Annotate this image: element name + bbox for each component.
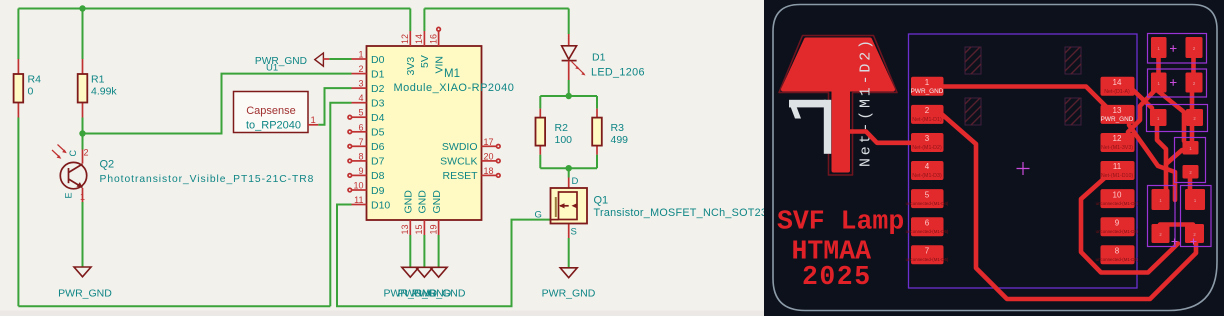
svg-text:8: 8	[358, 151, 363, 161]
svg-text:5: 5	[358, 108, 363, 118]
svg-text:499: 499	[611, 134, 629, 146]
svg-text:D1: D1	[592, 52, 606, 64]
svg-text:10: 10	[353, 181, 363, 191]
trace pad11 hook	[1081, 175, 1178, 273]
svg-text:4.99k: 4.99k	[91, 86, 117, 98]
M1 pad 12	[1101, 133, 1135, 152]
wire LED cathode to R2 R3	[568, 80, 570, 96]
wire R4 top	[17, 9, 19, 60]
svg-text:D2: D2	[371, 83, 385, 95]
lamp stem pad	[832, 90, 851, 173]
wire 3V3 pin drop	[409, 9, 411, 32]
wire D2 to capsense	[318, 88, 351, 125]
M1 pad 9	[1096, 217, 1139, 236]
svg-text:2: 2	[84, 148, 89, 158]
resistor R3	[596, 109, 598, 118]
wire R4 bottom to bottom rail	[17, 118, 19, 307]
hatched pad B	[1065, 47, 1081, 74]
resistor footprint R row2	[1148, 69, 1207, 97]
svg-text:Net-(M1-3V3): Net-(M1-3V3)	[1101, 145, 1133, 151]
svg-text:D7: D7	[371, 156, 385, 168]
global label PWR_GND arrow	[315, 53, 324, 66]
svg-text:unconnected-(M1-D4): unconnected-(M1-D4)	[906, 201, 949, 206]
svg-text:GND: GND	[431, 190, 443, 214]
MOSFET Q1	[568, 178, 570, 190]
M1 pad 11	[1101, 161, 1135, 180]
svg-text:14: 14	[414, 34, 424, 44]
wire bottom rail left	[18, 305, 330, 307]
M1 pin 4 stub	[352, 102, 367, 104]
svg-text:5: 5	[925, 190, 930, 199]
trace pad13 to cluster low	[1129, 125, 1175, 200]
wire R2 bottom	[539, 155, 541, 169]
M1 pin 8 stub	[352, 160, 367, 162]
M1 pin 19 stub	[438, 220, 440, 235]
svg-text:3: 3	[358, 79, 363, 89]
wire R1 bottom to junction	[82, 118, 84, 150]
svg-text:5V: 5V	[419, 55, 431, 68]
svg-text:14: 14	[1113, 78, 1122, 87]
trace cluster r1-r2 right	[1191, 48, 1196, 80]
svg-text:Net-(M1-D1): Net-(M1-D1)	[912, 117, 942, 123]
svg-text:13: 13	[1113, 106, 1122, 115]
svg-text:PWR_GND: PWR_GND	[542, 288, 596, 300]
M1 pin 9 stub	[352, 174, 367, 176]
resistor R4	[17, 59, 19, 74]
sheet Capsense	[234, 92, 309, 133]
svg-text:1: 1	[925, 78, 930, 87]
svg-text:D3: D3	[371, 98, 385, 110]
module M1 body	[367, 46, 482, 220]
wire up to D3	[330, 103, 351, 307]
trace cluster r2-r3 right	[1190, 84, 1195, 112]
wire top rail 3V3	[18, 8, 410, 10]
center origin cross	[1017, 162, 1030, 175]
trace cluster stub	[1166, 150, 1182, 164]
resistor R2	[539, 109, 541, 118]
svg-text:8: 8	[1115, 247, 1120, 256]
svg-text:11: 11	[1113, 162, 1122, 171]
svg-text:D0: D0	[371, 54, 385, 66]
svg-text:1: 1	[80, 192, 85, 202]
tiny pad marks	[1157, 46, 1197, 237]
svg-text:12: 12	[400, 34, 410, 44]
wire PWR_GND label to pin 1	[329, 58, 351, 60]
trace pad14 to cluster	[1132, 89, 1152, 108]
svg-text:Net-(M1-D10): Net-(M1-D10)	[1101, 173, 1134, 179]
svg-text:3: 3	[925, 134, 930, 143]
M1 pin 18 stub	[482, 174, 497, 176]
wire 5V to LED rail	[424, 8, 568, 10]
wire LED anode drop	[568, 9, 570, 35]
svg-text:Net-(D1-A): Net-(D1-A)	[1104, 89, 1130, 95]
svg-text:SWCLK: SWCLK	[440, 156, 477, 168]
svg-text:100: 100	[555, 134, 573, 146]
svg-text:LED_1206: LED_1206	[591, 67, 645, 79]
M1 pad 13	[1101, 105, 1135, 124]
svg-text:unconnected-(M1-D7): unconnected-(M1-D7)	[1096, 201, 1139, 206]
svg-text:20: 20	[484, 151, 494, 161]
M1 pad 4	[911, 161, 944, 180]
svg-text:D6: D6	[371, 141, 385, 153]
wire Q2 emitter to ground	[82, 202, 84, 267]
M1 pad 7	[906, 245, 949, 264]
LED D1	[568, 34, 570, 46]
svg-text:Q1: Q1	[594, 195, 609, 207]
M1 pin 7 stub	[352, 145, 367, 147]
svg-text:3V3: 3V3	[405, 57, 417, 76]
ground M1 pin19	[430, 267, 447, 277]
svg-text:PWR_GND: PWR_GND	[58, 288, 112, 300]
hatched pad C	[965, 98, 981, 125]
M1 pin 12 stub	[409, 31, 411, 46]
M1 pad 10	[1096, 189, 1139, 208]
resistor footprint row5 left vertical	[1148, 186, 1176, 247]
svg-text:16: 16	[428, 34, 438, 44]
wire R2 R3 bottom branch	[540, 167, 597, 169]
svg-text:D8: D8	[371, 170, 385, 182]
svg-text:PWR_GND: PWR_GND	[412, 288, 466, 300]
trace cluster bottom link	[1160, 222, 1193, 227]
junction at R2 R3 bottom	[566, 165, 572, 171]
svg-text:GND: GND	[417, 190, 429, 214]
M1 pin 15 stub	[423, 220, 425, 235]
resistor footprint R row1	[1148, 34, 1207, 64]
trace cluster r4-r5 right	[1188, 176, 1193, 192]
svg-text:R1: R1	[91, 74, 105, 86]
svg-text:7: 7	[358, 137, 363, 147]
svg-text:4: 4	[358, 93, 363, 103]
svg-text:1: 1	[358, 50, 363, 60]
svg-text:10: 10	[1113, 190, 1122, 199]
M1 pin 20 stub	[482, 160, 497, 162]
svg-text:G: G	[535, 210, 542, 221]
svg-text:VIN: VIN	[433, 56, 445, 74]
M1 pin 16 stub	[438, 31, 440, 46]
svg-text:Q2: Q2	[100, 159, 115, 171]
svg-text:12: 12	[1113, 134, 1122, 143]
ground Q2	[74, 267, 91, 277]
resistor R1	[82, 59, 84, 74]
svg-text:9: 9	[1115, 218, 1120, 227]
svg-text:11: 11	[354, 195, 363, 205]
svg-text:13: 13	[400, 224, 410, 234]
trace cluster r1-r2 left	[1156, 48, 1161, 80]
svg-text:Phototransistor_Visible_PT15-2: Phototransistor_Visible_PT15-21C-TR8	[100, 174, 315, 185]
svg-text:unconnected-(M1-D6): unconnected-(M1-D6)	[906, 257, 949, 262]
trace lamp to pad3	[848, 132, 913, 143]
M1 pin 2 stub	[352, 73, 367, 75]
wire to Q1 drain	[568, 168, 570, 177]
junction at R2 R3 top	[566, 93, 572, 99]
Q2 light arrows	[52, 150, 60, 158]
wire junction to D1 column	[83, 74, 352, 134]
svg-text:E: E	[64, 192, 74, 198]
trace cluster r2 to pad12	[1128, 88, 1157, 142]
wire Q1 source to ground	[568, 238, 570, 268]
M1 pin 5 stub	[352, 116, 367, 118]
D1 emission arrows	[572, 62, 579, 69]
svg-text:M1: M1	[444, 68, 460, 80]
svg-text:PWR_GND: PWR_GND	[911, 88, 944, 95]
svg-text:9: 9	[358, 166, 363, 176]
M1 pin 10 stub	[352, 189, 367, 191]
M1 pad 3	[911, 133, 944, 152]
svg-text:18: 18	[484, 166, 494, 176]
M1 pad 1	[911, 77, 944, 96]
svg-text:Transistor_MOSFET_NCh_SOT23: Transistor_MOSFET_NCh_SOT23	[594, 207, 768, 219]
M1 pin 3 stub	[352, 87, 367, 89]
svg-text:U1: U1	[266, 63, 278, 74]
M1 pin 17 stub	[482, 145, 497, 147]
svg-text:7: 7	[925, 247, 930, 256]
trace cluster r3 to r5 left	[1157, 124, 1166, 191]
svg-text:Capsense: Capsense	[246, 105, 296, 117]
svg-text:6: 6	[358, 122, 363, 132]
svg-text:PWR_GND: PWR_GND	[255, 56, 307, 67]
ground Q1	[560, 268, 577, 278]
svg-text:unconnected-(M1-D5): unconnected-(M1-D5)	[906, 229, 949, 234]
M1 pad 5	[906, 189, 949, 208]
M1 pin 6 stub	[352, 131, 367, 133]
M1 pin 11 stub	[352, 204, 367, 206]
wire M1 GND 19	[438, 235, 440, 267]
svg-text:unconnected-(M1-D8): unconnected-(M1-D8)	[1096, 229, 1139, 234]
M1 pad 14	[1101, 77, 1135, 96]
trace pad13 to cluster	[1158, 91, 1184, 141]
svg-text:R4: R4	[28, 74, 42, 86]
svg-text:2025: 2025	[802, 262, 872, 292]
sheet pin 1	[308, 124, 318, 126]
svg-text:D4: D4	[371, 112, 385, 124]
svg-text:2: 2	[358, 64, 363, 74]
svg-text:D9: D9	[371, 185, 385, 197]
M1 pad 6	[906, 217, 949, 236]
ground M1 pin13	[402, 267, 419, 277]
svg-text:15: 15	[414, 224, 424, 234]
svg-text:SWDIO: SWDIO	[442, 141, 478, 153]
trace pad2 loop bottom	[941, 114, 1196, 300]
svg-text:Net-(M1-D2): Net-(M1-D2)	[912, 145, 942, 151]
svg-text:19: 19	[428, 224, 438, 234]
svg-text:RESET: RESET	[442, 170, 478, 182]
svg-text:S: S	[571, 227, 577, 238]
bottom page strip	[0, 311, 764, 316]
module courtyard rectangle	[909, 34, 1138, 288]
trace pad1 to pad13	[941, 87, 1112, 113]
wire M1 GND 15	[423, 235, 425, 267]
board outline Edge.Cuts	[773, 5, 1217, 311]
ground M1 pin15	[416, 267, 433, 277]
svg-text:17: 17	[484, 137, 494, 147]
wire R2 R3 top branch	[540, 95, 597, 97]
svg-text:0: 0	[28, 86, 34, 98]
trace cluster r3-r4 right	[1190, 120, 1195, 143]
resistor footprint R row3	[1147, 105, 1208, 132]
hatched pad D	[1065, 98, 1081, 125]
lamp silkscreen outline	[779, 36, 897, 176]
svg-text:6: 6	[925, 218, 930, 227]
M1 pad 8	[1096, 245, 1139, 264]
wire R2 top	[539, 96, 541, 109]
phototransistor Q2	[60, 162, 86, 188]
svg-text:unconnected-(M1-D9): unconnected-(M1-D9)	[1096, 257, 1139, 262]
M1 pin 13 stub	[409, 220, 411, 235]
svg-text:Module_XIAO-RP2040: Module_XIAO-RP2040	[394, 82, 515, 94]
svg-text:D10: D10	[371, 199, 390, 211]
svg-text:to_RP2040: to_RP2040	[246, 120, 301, 132]
svg-text:D: D	[572, 176, 579, 187]
capacitor footprint row4 vertical	[1175, 138, 1206, 183]
pcb background	[764, 0, 1224, 316]
lamp footprint pad (trapezoid)	[783, 40, 893, 90]
lamp pad number 1 rotated	[789, 100, 826, 108]
wire D10 to Q1 gate	[337, 205, 551, 307]
svg-text:R2: R2	[555, 122, 569, 134]
wire 5V pin drop	[423, 9, 425, 32]
svg-text:SVF Lamp: SVF Lamp	[777, 207, 904, 237]
svg-text:R3: R3	[611, 122, 625, 134]
svg-text:2: 2	[925, 106, 930, 115]
svg-text:Net-(M1-D2): Net-(M1-D2)	[858, 37, 875, 167]
M1 pin 14 stub	[423, 31, 425, 46]
wire R3 bottom	[596, 155, 598, 169]
junction at R1 top	[79, 5, 85, 11]
wire M1 GND 13	[409, 235, 411, 267]
svg-text:D5: D5	[371, 127, 385, 139]
M1 pin 1 stub	[352, 58, 367, 60]
hatched pad A	[965, 47, 981, 74]
led footprint row5 right vertical	[1172, 186, 1212, 247]
svg-text:1: 1	[311, 115, 316, 126]
svg-text:Net-(M1-D3): Net-(M1-D3)	[912, 173, 942, 179]
svg-text:D1: D1	[371, 68, 385, 80]
svg-text:GND: GND	[403, 190, 415, 214]
junction at R1 bottom	[79, 130, 85, 136]
svg-text:C: C	[68, 150, 78, 157]
M1 pad 2	[911, 105, 944, 124]
wire R3 top	[596, 96, 598, 109]
svg-text:4: 4	[925, 162, 930, 171]
svg-text:PWR_GND: PWR_GND	[1101, 116, 1134, 123]
wire R1 top	[82, 9, 84, 60]
